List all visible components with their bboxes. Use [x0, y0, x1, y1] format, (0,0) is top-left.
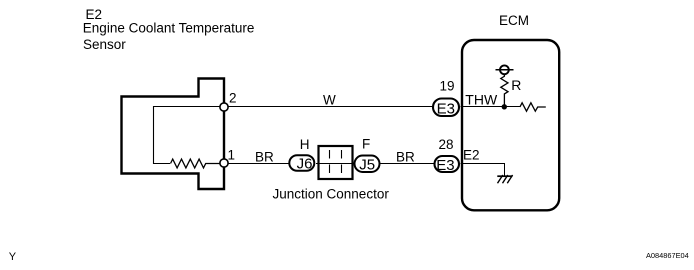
resistor (thermistor element) — [171, 159, 221, 168]
svg-text:E3: E3 — [436, 157, 454, 174]
svg-text:Junction Connector: Junction Connector — [273, 187, 390, 202]
resistor R vertical — [501, 74, 508, 107]
svg-text:R: R — [511, 77, 521, 93]
svg-text:Sensor: Sensor — [83, 37, 126, 52]
svg-text:E3: E3 — [437, 100, 455, 117]
svg-text:W: W — [323, 93, 336, 108]
svg-text:F: F — [362, 137, 370, 152]
svg-text:ECM: ECM — [499, 13, 529, 28]
label: E2 Engine Coolant Temperature Sensor — [83, 7, 255, 52]
resistor horizontal inside ECM — [520, 103, 546, 111]
sensor inner element wiring — [154, 107, 225, 164]
wire BR from terminal 1 to J6 — [228, 163, 289, 165]
wire through junction box — [316, 163, 355, 165]
wire W from terminal 2 to ECM pin 19 — [228, 106, 433, 108]
svg-text:A084867E04: A084867E04 — [646, 251, 689, 260]
connector J6 — [289, 155, 314, 171]
svg-text:1: 1 — [228, 148, 236, 163]
svg-text:BR: BR — [396, 150, 415, 165]
svg-text:28: 28 — [439, 137, 454, 152]
junction dot THW node — [502, 104, 507, 109]
sensor body outline — [122, 79, 225, 190]
connector J5 — [355, 156, 380, 173]
svg-text:H: H — [300, 137, 310, 152]
svg-text:J5: J5 — [359, 156, 375, 173]
connector E3 pin 19 — [433, 99, 459, 117]
wire E2 inside ECM — [461, 164, 505, 176]
terminal 2 — [220, 103, 228, 111]
svg-text:19: 19 — [440, 79, 455, 94]
svg-text:THW: THW — [465, 92, 498, 108]
power node circle — [500, 65, 509, 74]
terminal 1 — [220, 159, 228, 167]
power node crossbar — [496, 69, 514, 71]
svg-text:Y: Y — [9, 251, 17, 263]
junction connector box — [319, 146, 353, 179]
wire BR from J5 to ECM pin 28 — [381, 163, 435, 165]
svg-text:Engine Coolant Temperature: Engine Coolant Temperature — [83, 21, 255, 36]
svg-text:J6: J6 — [297, 156, 313, 173]
ECM box — [462, 40, 559, 210]
junction connector dashed line 1 — [329, 150, 331, 180]
wire THW inside ECM — [461, 106, 521, 108]
svg-text:BR: BR — [255, 150, 274, 165]
connector E3 pin 28 — [435, 156, 460, 172]
svg-text:2: 2 — [229, 91, 237, 106]
junction connector dashed line 2 — [341, 150, 343, 180]
svg-text:E2: E2 — [463, 148, 480, 163]
ground — [497, 175, 512, 183]
